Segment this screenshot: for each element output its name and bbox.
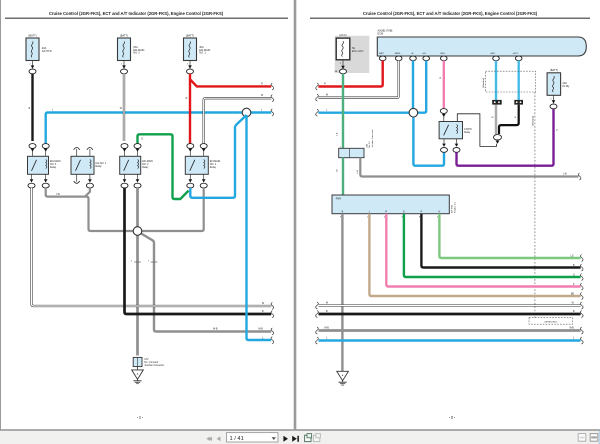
svg-text:+BD2: +BD2 xyxy=(512,53,518,55)
squiggles blue bus xyxy=(316,337,583,344)
connector pin rect +BD2 xyxy=(514,100,523,105)
svg-text:G: G xyxy=(573,274,575,276)
svg-text:DI Rly: DI Rly xyxy=(563,85,571,88)
wire blue L branch junction to relay R4 pin xyxy=(190,115,246,198)
svg-text:N: N xyxy=(439,210,441,213)
ground symbol page 1 xyxy=(132,367,144,384)
title page 2 xyxy=(310,11,590,19)
wire thin shield drain to relay xyxy=(457,114,496,147)
ECM pin BATT xyxy=(379,56,386,61)
svg-text:Cruise Control (2GR-FKS), ECT: Cruise Control (2GR-FKS), ECT and A/T In… xyxy=(49,11,224,16)
wire green G from relay R3 to relay R4 xyxy=(138,134,189,199)
wire pink P IREL to relay C/OPN xyxy=(440,61,448,122)
svg-text:+BD1: +BD1 xyxy=(490,53,496,55)
svg-text:Junction Connector: Junction Connector xyxy=(371,129,374,147)
svg-text:A72: A72 xyxy=(144,358,149,361)
connector break squiggle gray A66 xyxy=(578,173,581,180)
junction connector A66 xyxy=(339,129,374,157)
svg-text:A/F HTR: A/F HTR xyxy=(42,50,52,53)
svg-text:Junction Connector: Junction Connector xyxy=(144,364,164,367)
wire light green LG PNP N to page edge xyxy=(439,214,580,258)
wire gray net relays to junction J2 xyxy=(46,188,204,231)
fuse DI Rly (BATT) xyxy=(547,68,570,109)
wire blue L page edge to junction J3 xyxy=(318,110,410,113)
svg-text:No. 12: No. 12 xyxy=(369,141,371,148)
svg-text:W-B: W-B xyxy=(324,327,329,329)
svg-text:Relay: Relay xyxy=(96,165,103,168)
wire gray relay R3 to ground connector xyxy=(136,188,139,356)
connector break squiggle W-B xyxy=(271,328,274,335)
connector break squiggle white bottom xyxy=(271,302,274,309)
rotate/page icon 2 (disabled) xyxy=(313,434,320,442)
wire tan BE PNP L to page edge xyxy=(369,214,580,296)
wire blue L vertical to bottom bus xyxy=(247,115,272,340)
wire blue +B to junction J3 xyxy=(412,61,414,110)
squiggles black bus xyxy=(316,311,583,318)
junction block shaded box xyxy=(335,36,370,73)
svg-text:G: G xyxy=(141,139,143,141)
ECM box xyxy=(377,29,586,56)
wire blue L from relay R1 to junction and page edge xyxy=(46,109,272,143)
wire black B from F1 to relay R1 xyxy=(29,74,33,141)
fuse F3 EFI-MAIN NO.1 xyxy=(184,34,211,74)
wire red R BATT to page edge xyxy=(318,61,382,87)
page number box xyxy=(227,433,279,442)
svg-text:Relay: Relay xyxy=(464,131,471,134)
wire black B PNP P to page edge xyxy=(421,214,580,268)
wire green G PNP D to page edge xyxy=(404,214,581,277)
svg-text:A/T Shift: A/T Shift xyxy=(451,205,454,213)
wire cyan +BD2 shielded xyxy=(518,61,520,100)
last page button xyxy=(292,436,299,442)
wire white W relay R1 to bottom bus xyxy=(32,188,272,306)
svg-text:(BATT): (BATT) xyxy=(120,34,128,38)
junction node J2 xyxy=(133,227,142,236)
fuse ECU-ACC xyxy=(335,33,364,74)
svg-text:L-B: L-B xyxy=(357,170,359,174)
page divider xyxy=(294,0,297,430)
relay R4 EFI-MAIN NO.1 xyxy=(185,144,220,188)
toolbar xyxy=(0,429,600,444)
wire purple V relay to fuse DI Rly xyxy=(457,109,559,166)
svg-text:No. 1 Ground: No. 1 Ground xyxy=(144,361,159,364)
ECM pin +B2 xyxy=(423,56,430,61)
connector break squiggle blue left xyxy=(316,109,319,116)
wire blue +B2 to junction J3 xyxy=(416,61,426,113)
ECM pin +BD2 xyxy=(515,56,522,61)
ECM pin +B xyxy=(410,56,417,61)
svg-text:(Shielded): (Shielded) xyxy=(483,78,485,88)
svg-text:Relay: Relay xyxy=(142,166,149,169)
svg-text:Cruise Control (2GR-FKS), ECT: Cruise Control (2GR-FKS), ECT and A/T In… xyxy=(363,11,538,16)
wire red R from F3 down to relay R4 xyxy=(186,74,190,145)
wire gray branch to W-B bus xyxy=(141,233,271,331)
connector A72 No.1 Ground Junction Connector xyxy=(133,357,164,367)
next button xyxy=(283,436,288,442)
svg-text:BATT: BATT xyxy=(379,52,385,55)
wire pink P PNP R to page edge xyxy=(386,214,580,287)
LEFT PAGE xyxy=(5,11,288,420)
svg-text:1 / 41: 1 / 41 xyxy=(230,436,244,442)
wire white W MREL to page edge xyxy=(318,61,398,98)
shielded note dashed box xyxy=(529,318,573,325)
svg-text:NO. 1: NO. 1 xyxy=(199,52,206,55)
wire cyan +BD1 shielded xyxy=(495,61,497,100)
wire gray W-B bus full width xyxy=(319,327,581,330)
svg-text:BE: BE xyxy=(571,293,575,295)
connector break squiggle white left xyxy=(316,94,319,101)
svg-text:MREL: MREL xyxy=(395,53,402,55)
ECM pin +BD1 xyxy=(493,56,500,61)
wire blue junction J3 to relay C/OPN xyxy=(413,115,444,166)
ECM pin IREL xyxy=(441,56,448,61)
shield drain connector xyxy=(494,135,502,144)
wire green ECU-ACC to junction connector A66 xyxy=(336,74,343,149)
wire blue L bus full width xyxy=(319,337,581,340)
svg-text:- 2 -: - 2 - xyxy=(449,416,455,420)
rotate/page icon 1 xyxy=(305,434,312,442)
prev button (disabled) xyxy=(217,436,221,441)
shield dashed box xyxy=(483,71,536,92)
squiggles gray bus xyxy=(316,327,583,334)
relay R1 EFI-MAIN NO.3 xyxy=(28,144,61,188)
svg-text:(Shielded): (Shielded) xyxy=(533,116,535,126)
wire white W from F2 to relay R3 xyxy=(120,74,124,141)
svg-text:W-B: W-B xyxy=(569,327,574,329)
wire black shielded pair right xyxy=(499,105,519,134)
svg-text:ECM: ECM xyxy=(378,33,384,36)
squiggles white bus xyxy=(316,302,583,309)
connector break squiggle blue bottom xyxy=(271,337,274,344)
svg-text:- 1 -: - 1 - xyxy=(137,416,143,420)
svg-text:R: R xyxy=(385,210,387,213)
connector break squiggle black xyxy=(271,311,274,318)
fuse F1 A/F HTR xyxy=(26,34,52,74)
window left edge xyxy=(0,0,1,430)
PNP switch box xyxy=(332,195,457,218)
ground symbol page 2 xyxy=(337,371,349,385)
svg-text:Relay: Relay xyxy=(210,166,217,169)
svg-text:(ACC): (ACC) xyxy=(339,33,346,37)
cascade break squiggles xyxy=(580,255,583,300)
svg-text:PNR: PNR xyxy=(336,198,341,201)
wire black B relay R3 to bottom bus xyxy=(125,188,272,314)
connector break squiggle red left xyxy=(316,83,319,90)
wire gray PNP B to ground xyxy=(341,214,343,372)
svg-text:Y-B: Y-B xyxy=(56,194,60,196)
wire green A66 to PNP switch xyxy=(336,158,343,195)
RIGHT PAGE xyxy=(310,11,590,420)
svg-text:(SHIELDED): (SHIELDED) xyxy=(544,321,557,323)
connector break squiggle red xyxy=(271,83,274,90)
svg-text:ECU-ACC: ECU-ACC xyxy=(352,50,364,53)
connector break squiggle blue xyxy=(271,109,274,116)
wire gray A66 to page edge xyxy=(357,158,578,177)
wire red R branch to page edge xyxy=(190,79,271,86)
svg-text:IREL: IREL xyxy=(440,53,446,55)
svg-text:D: D xyxy=(403,210,405,213)
first-page button (disabled) xyxy=(206,437,212,441)
relay C/OPN xyxy=(439,122,472,153)
svg-text:(BATT): (BATT) xyxy=(28,34,36,38)
layout icon continuous xyxy=(590,434,598,442)
right edge sliver xyxy=(599,431,600,444)
svg-text:L-B: L-B xyxy=(563,173,567,175)
relay R3 EFI-MAIN NO.2 xyxy=(120,144,153,188)
svg-text:Position Ind: Position Ind xyxy=(454,201,457,213)
svg-text:Relay: Relay xyxy=(50,166,57,169)
fuse F2 EFI-MAIN NO.2 xyxy=(118,34,145,74)
wire white W bus full width xyxy=(319,302,581,305)
connector break squiggle white xyxy=(271,95,274,102)
svg-text:(BATT): (BATT) xyxy=(550,68,558,72)
title page 1 xyxy=(5,11,288,19)
svg-text:NO. 2: NO. 2 xyxy=(133,52,140,55)
layout icon single page xyxy=(578,434,586,442)
svg-text:W-B: W-B xyxy=(213,328,218,330)
connector 2E tick marks xyxy=(131,260,158,262)
relay R2 IG2 NO.1 xyxy=(71,148,107,189)
connector pin rect +BD1 xyxy=(492,100,502,105)
svg-text:LG: LG xyxy=(571,255,574,257)
wire black B bus full width xyxy=(319,311,581,314)
shield dashed line to note xyxy=(533,92,535,318)
svg-text:W-B: W-B xyxy=(258,328,263,330)
wire white W from relay R4 to page edge xyxy=(204,95,272,144)
svg-text:L-B: L-B xyxy=(336,132,338,136)
svg-text:(BATT): (BATT) xyxy=(186,34,194,38)
junction node J3 xyxy=(409,108,418,117)
junction node J1 xyxy=(242,108,251,117)
ECM pin MREL xyxy=(395,56,402,61)
svg-text:LG: LG xyxy=(336,169,338,172)
wire white shielded pair left xyxy=(491,105,496,135)
